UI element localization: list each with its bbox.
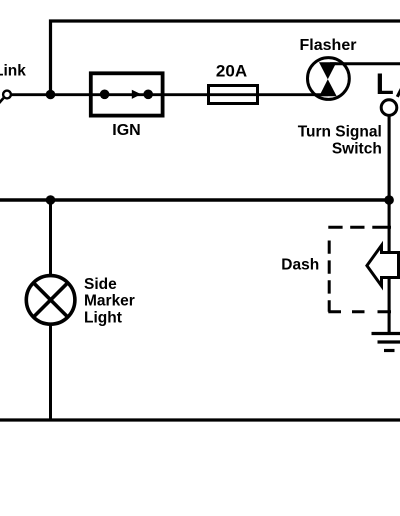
dashed box Dash top edge <box>328 226 391 229</box>
wire main horizontal from fusible link to flasher <box>9 93 328 96</box>
wire second horizontal rail <box>0 198 389 201</box>
node junction left rail <box>46 195 56 205</box>
wire flasher output to right edge <box>330 62 400 65</box>
switch IGN contacts <box>100 90 153 100</box>
fuse 20A <box>209 86 258 104</box>
lamp Side Marker Light <box>26 276 75 325</box>
svg-text:L: L <box>376 68 394 101</box>
dashed box Dash bottom edge <box>328 310 391 313</box>
wire bottom rail <box>0 418 400 421</box>
svg-text:Marker: Marker <box>84 293 135 310</box>
svg-text:20A: 20A <box>216 61 247 80</box>
ground <box>372 334 400 351</box>
label slash fragment at edge <box>397 85 400 97</box>
wire rail down to side marker lamp <box>49 200 52 277</box>
svg-text:Turn Signal: Turn Signal <box>298 124 382 141</box>
label Turn Signal Switch <box>298 124 382 158</box>
flasher circle <box>308 58 350 100</box>
fuse wire through <box>209 93 258 96</box>
terminal L open circle <box>381 100 397 116</box>
fusible link terminal <box>0 91 11 106</box>
svg-text:Side: Side <box>84 276 117 293</box>
label Side Marker Light <box>84 276 135 326</box>
wire top feed loop <box>51 21 400 95</box>
svg-text:Light: Light <box>84 309 122 326</box>
wire L terminal down to ground <box>388 115 391 333</box>
svg-text:Dash: Dash <box>281 257 319 274</box>
svg-text:IGN: IGN <box>112 122 140 139</box>
svg-text:Switch: Switch <box>332 141 382 158</box>
wire lamp down to bottom rail <box>49 324 52 421</box>
svg-text:Link: Link <box>0 63 26 80</box>
switch IGN box <box>91 73 163 115</box>
indicator arrow on dash <box>367 245 399 286</box>
dashed box Dash left edge <box>328 241 331 312</box>
node junction right rail <box>384 195 394 205</box>
svg-text:Flasher: Flasher <box>300 37 357 54</box>
node junction at ignition feed <box>46 90 56 100</box>
flasher hourglass <box>319 62 337 96</box>
